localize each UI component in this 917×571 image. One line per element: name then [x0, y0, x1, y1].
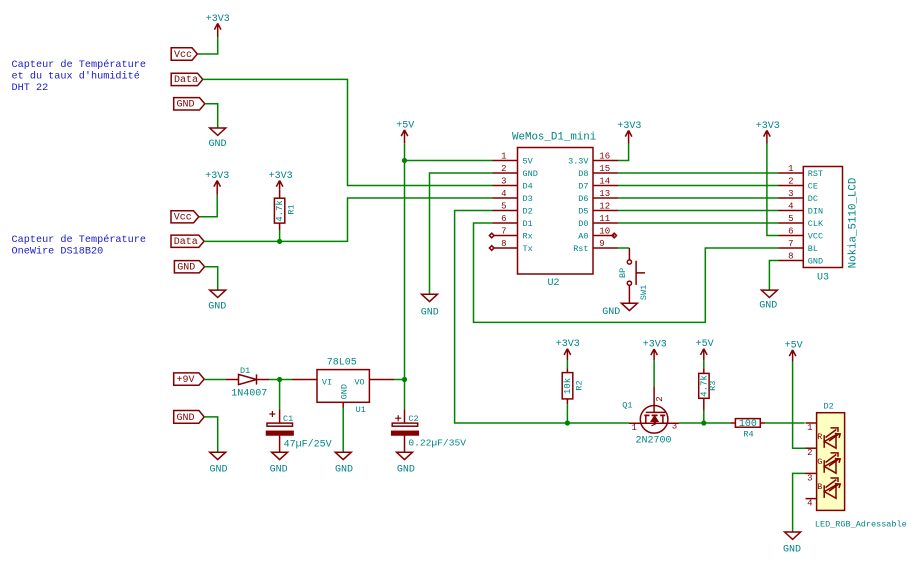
svg-text:9: 9 [599, 239, 604, 249]
svg-text:R4: R4 [743, 430, 753, 440]
svg-text:2: 2 [788, 176, 793, 186]
svg-text:+5V: +5V [396, 120, 414, 131]
svg-text:R2: R2 [575, 380, 585, 390]
svg-text:2N2700: 2N2700 [636, 435, 672, 446]
svg-text:4.7k: 4.7k [275, 200, 285, 222]
svg-text:CLK: CLK [808, 219, 824, 229]
svg-text:6: 6 [501, 214, 506, 224]
note DHT22 description [12, 59, 147, 94]
svg-text:GND: GND [339, 384, 349, 399]
U2 pin 4 D3 [493, 197, 518, 199]
mcu U2 WeMos_D1_mini body [518, 148, 594, 275]
svg-text:DC: DC [808, 194, 818, 204]
wire +3V3 to R2 [566, 360, 568, 368]
junction D1/C1/VI [277, 377, 282, 382]
svg-text:D1: D1 [523, 219, 533, 229]
wire D5 to DIN [618, 210, 779, 212]
svg-text:+3V3: +3V3 [269, 171, 293, 182]
svg-text:Rx: Rx [523, 232, 533, 242]
U3 pin 6 VCC [779, 235, 804, 237]
svg-text:8: 8 [501, 239, 506, 249]
power +5V (rail) [401, 130, 408, 143]
svg-text:3: 3 [807, 473, 812, 483]
svg-text:GND: GND [270, 464, 288, 475]
svg-text:GND: GND [208, 139, 226, 150]
svg-text:13: 13 [599, 189, 610, 199]
wire R2 to gate net [566, 404, 568, 423]
svg-text:BL: BL [808, 244, 818, 254]
label Data (DS18B20) [171, 235, 204, 247]
wire GND label to ground [204, 417, 218, 452]
power +5V (D2) [789, 350, 796, 362]
svg-text:GND: GND [759, 301, 777, 312]
wire R1 to Data net [279, 230, 281, 241]
power +3V3 (U2 3.3V) [625, 130, 632, 143]
U3 pin 1 RST [779, 172, 804, 174]
svg-text:D8: D8 [578, 169, 588, 179]
wire 3.3V to +3V3 [618, 144, 629, 161]
resistor R3 4.7k [699, 368, 709, 411]
svg-text:11: 11 [599, 214, 610, 224]
U2 pin 10 A0 [593, 235, 615, 237]
power +3V3 (R1) [276, 181, 283, 190]
svg-text:GND: GND [208, 302, 226, 313]
svg-text:3: 3 [501, 176, 506, 186]
note DS18B20 description [12, 234, 147, 258]
U2 pin 13 D6 [593, 197, 618, 199]
U2 pin 16 3.3V [593, 160, 618, 162]
svg-text:+5V: +5V [785, 340, 803, 351]
svg-text:+3V3: +3V3 [617, 121, 641, 132]
svg-text:7: 7 [501, 226, 506, 236]
U2 pin 7 Rx [494, 235, 518, 237]
D2 LED G [817, 453, 840, 473]
svg-text:+3V3: +3V3 [556, 339, 580, 350]
U3 pin 8 GND [779, 260, 804, 262]
power +3V3 (LCD) [764, 130, 771, 143]
label GND (9V input) [174, 411, 205, 424]
svg-text:7: 7 [788, 239, 793, 249]
svg-text:0.22µF/35V: 0.22µF/35V [408, 438, 466, 449]
wire +3V3 to Q1 drain [653, 360, 655, 386]
D2 pin 1 [806, 422, 817, 424]
svg-text:2: 2 [807, 448, 812, 458]
svg-text:et du taux d'humidité: et du taux d'humidité [12, 71, 140, 83]
U2 pin 5 D2 [493, 210, 518, 212]
wire D2 to Q1 gate [455, 211, 629, 424]
D2 LED B [817, 478, 840, 498]
wire D1 to U1 VI [269, 379, 292, 381]
U2 pin 3 D4 [493, 185, 518, 187]
svg-text:1: 1 [788, 164, 793, 174]
ground (LCD) [761, 290, 777, 297]
svg-text:+9V: +9V [177, 375, 195, 386]
power +3V3 (DHT Vcc) [214, 23, 221, 37]
wire GND DHT [205, 104, 218, 128]
wire +5V to U2 5V pin [405, 160, 493, 162]
wire Vcc2 to +3V3 [199, 195, 217, 217]
junction R1/Data [277, 239, 282, 244]
svg-text:VO: VO [354, 377, 364, 387]
svg-text:4: 4 [788, 201, 793, 211]
svg-text:D1: D1 [240, 366, 250, 376]
svg-text:3.3V: 3.3V [568, 157, 589, 167]
wire Data DHT to D4 [203, 79, 493, 185]
svg-text:Q1: Q1 [622, 400, 632, 410]
power +3V3 (Q1 drain) [651, 349, 658, 360]
wire D6 to DC [618, 197, 779, 199]
svg-text:Vcc: Vcc [174, 213, 192, 224]
svg-text:+5V: +5V [696, 339, 714, 350]
svg-text:U1: U1 [356, 405, 366, 415]
junction +5V/pin1 [402, 158, 407, 163]
svg-text:RST: RST [808, 169, 823, 179]
svg-text:Vcc: Vcc [174, 50, 192, 61]
wire D7 to CE [618, 185, 779, 187]
svg-text:WeMos_D1_mini: WeMos_D1_mini [512, 132, 596, 144]
wire D0 to CLK [618, 222, 779, 224]
junction R3/source [701, 420, 706, 425]
svg-text:15: 15 [599, 164, 610, 174]
svg-text:14: 14 [599, 176, 610, 186]
wire U1 GND [342, 408, 344, 452]
power +3V3 (R2) [564, 349, 571, 361]
svg-text:12: 12 [599, 201, 610, 211]
U2 pin 2 GND [493, 172, 518, 174]
junction R2/gate [565, 420, 570, 425]
wire LCD GND [769, 261, 778, 290]
svg-text:Data: Data [174, 75, 198, 86]
ground (SW1) [621, 303, 637, 310]
ground (DS18B20) [210, 290, 226, 297]
wire +5V vertical rail [404, 143, 406, 379]
svg-text:Capteur de Température: Capteur de Température [12, 234, 147, 246]
D2 pin 2 [806, 447, 817, 449]
resistor R2 10k [562, 368, 573, 404]
svg-text:B: B [817, 482, 822, 492]
svg-text:10k: 10k [563, 378, 573, 394]
wire R3 to source net [703, 411, 705, 423]
U2 pin 11 D0 [593, 222, 618, 224]
svg-text:U3: U3 [817, 273, 829, 284]
svg-text:D2: D2 [824, 402, 834, 412]
svg-text:A0: A0 [578, 232, 588, 242]
wire +5V to D2 VDD [793, 362, 806, 449]
svg-text:GND: GND [177, 263, 195, 274]
svg-text:1: 1 [501, 151, 506, 161]
svg-text:10: 10 [599, 226, 610, 236]
capacitor C2 0.22uF/35V [404, 380, 406, 410]
label +9V [174, 373, 205, 385]
svg-text:78L05: 78L05 [327, 357, 357, 368]
junction +5V/VO/C2 [402, 377, 407, 382]
svg-text:Rst: Rst [573, 244, 588, 254]
lcd U3 Nokia_5110_LCD body [803, 167, 842, 268]
svg-text:GND: GND [209, 464, 227, 475]
wire D1 to LCD BL [474, 223, 779, 322]
diode D1 1N4007 [226, 374, 269, 384]
wire +5V to R3 [703, 360, 705, 368]
resistor R1 4.7k [274, 190, 284, 230]
svg-text:+3V3: +3V3 [206, 14, 230, 25]
svg-text:4: 4 [807, 499, 812, 509]
svg-text:SW1: SW1 [639, 285, 649, 300]
U2 pin 14 D7 [593, 185, 618, 187]
svg-text:3: 3 [672, 422, 677, 432]
svg-text:GND: GND [602, 307, 620, 318]
svg-text:G: G [817, 457, 822, 467]
svg-text:1N4007: 1N4007 [231, 388, 267, 399]
wire R4 to D2 DIN [765, 422, 804, 424]
ground (C1) [272, 452, 288, 459]
U2 pin 15 D8 [593, 172, 618, 174]
svg-text:CE: CE [808, 182, 818, 192]
U2 pin 12 D5 [593, 210, 618, 212]
svg-text:GND: GND [177, 413, 195, 424]
svg-text:D4: D4 [523, 182, 533, 192]
ground (U1) [335, 452, 351, 459]
svg-text:D0: D0 [578, 219, 588, 229]
svg-text:GND: GND [177, 100, 195, 111]
U2 pin 1 5V [493, 160, 518, 162]
svg-text:+3V3: +3V3 [205, 171, 229, 182]
wire GND DS18B20 [205, 267, 218, 290]
switch SW1 push button [627, 248, 645, 303]
led D2 LED_RGB_Adressable body [817, 413, 845, 511]
svg-text:D5: D5 [578, 207, 588, 217]
svg-text:DHT 22: DHT 22 [12, 83, 49, 94]
svg-text:5V: 5V [523, 157, 534, 167]
wire Rst to SW1 [617, 247, 629, 249]
U3 pin 7 BL [779, 247, 804, 249]
svg-text:Tx: Tx [523, 244, 533, 254]
svg-text:4: 4 [501, 189, 506, 199]
svg-text:5: 5 [501, 201, 506, 211]
svg-text:1: 1 [807, 423, 812, 433]
svg-text:D7: D7 [578, 182, 588, 192]
svg-text:GND: GND [808, 257, 823, 267]
svg-text:2: 2 [501, 164, 506, 174]
svg-text:8: 8 [788, 251, 793, 261]
ground (D2) [785, 532, 801, 539]
svg-text:GND: GND [783, 545, 801, 556]
label Data (DHT) [171, 73, 203, 85]
capacitor C1 47uF/25V [279, 380, 281, 410]
U2 pin 8 Tx [494, 247, 518, 249]
label GND (DHT) [174, 98, 205, 110]
svg-text:R1: R1 [287, 204, 297, 214]
wire +9V to D1 [204, 379, 226, 381]
ground (DHT) [210, 128, 226, 135]
svg-text:OneWire DS18B20: OneWire DS18B20 [12, 245, 104, 257]
power +5V (R3) [701, 349, 708, 361]
svg-text:LED_RGB_Adressable: LED_RGB_Adressable [815, 519, 907, 529]
svg-text:1: 1 [631, 423, 636, 433]
svg-text:D3: D3 [523, 194, 533, 204]
svg-text:U2: U2 [548, 278, 560, 289]
svg-text:GND: GND [523, 169, 538, 179]
U2 pin 6 D1 [493, 222, 518, 224]
svg-text:Nokia_5110_LCD: Nokia_5110_LCD [848, 178, 860, 269]
svg-text:DIN: DIN [808, 207, 823, 217]
svg-text:VI: VI [322, 377, 332, 387]
svg-text:D6: D6 [578, 194, 588, 204]
svg-text:GND: GND [335, 464, 353, 475]
svg-text:47µF/25V: 47µF/25V [284, 439, 332, 451]
U2 pin 9 Rst [593, 247, 618, 249]
label Vcc (DS18B20) [171, 211, 199, 223]
svg-text:2: 2 [655, 396, 665, 401]
svg-text:BP: BP [618, 268, 628, 278]
svg-text:3: 3 [788, 189, 793, 199]
svg-text:C2: C2 [408, 414, 418, 424]
D2 LED R [817, 428, 840, 448]
transistor Q1 2N2700 [629, 387, 679, 434]
svg-text:+3V3: +3V3 [756, 121, 780, 132]
svg-text:GND: GND [397, 464, 415, 475]
svg-text:6: 6 [788, 226, 793, 236]
svg-text:Data: Data [174, 237, 198, 248]
U3 pin 4 DIN [779, 210, 804, 212]
svg-text:VCC: VCC [808, 232, 823, 242]
svg-text:C1: C1 [283, 414, 293, 424]
svg-text:Capteur de Température: Capteur de Température [12, 59, 147, 71]
U3 pin 5 CLK [779, 222, 804, 224]
wire Data DS18B20 to D3 [204, 198, 492, 241]
svg-text:R3: R3 [708, 381, 718, 391]
wire U2 GND pin to ground [430, 173, 493, 294]
svg-text:+3V3: +3V3 [643, 339, 667, 350]
wire D8 to RST [618, 172, 779, 174]
svg-text:GND: GND [421, 308, 439, 319]
resistor R4 100 [730, 419, 765, 428]
svg-text:D2: D2 [523, 207, 533, 217]
ground (9V input) [210, 452, 226, 459]
regulator U1 78L05 body [292, 370, 394, 408]
U3 pin 3 DC [779, 197, 804, 199]
power +3V3 (DS18B20 Vcc) [214, 181, 221, 195]
label GND (DS18B20) [174, 261, 204, 273]
svg-text:16: 16 [599, 151, 610, 161]
D2 pin 4 [806, 498, 817, 500]
ground (U2) [422, 294, 438, 301]
label Vcc (DHT) [171, 48, 197, 60]
wire D2 GND [793, 473, 806, 531]
wire Vcc to +3V3 [197, 37, 217, 54]
wire VO to +5V rail [394, 379, 404, 381]
wire Q1 source to R4 [679, 422, 731, 424]
svg-text:5: 5 [788, 214, 793, 224]
wire +3V3 to LCD VCC [767, 144, 779, 236]
svg-text:R: R [817, 432, 822, 442]
D2 pin 3 [806, 472, 817, 474]
ground (C2) [397, 452, 413, 459]
U3 pin 2 CE [779, 185, 804, 187]
